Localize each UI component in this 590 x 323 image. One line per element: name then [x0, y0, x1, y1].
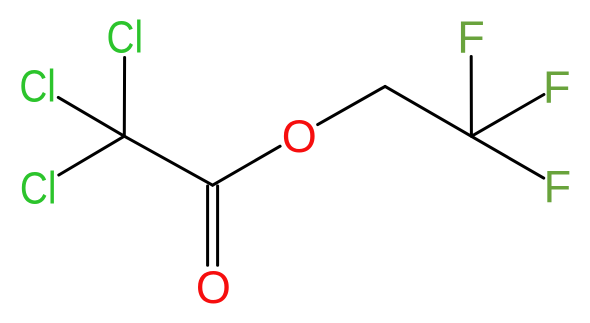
bond CF3-F top (vertical): [470, 57, 473, 137]
svg-text:F: F: [543, 61, 571, 112]
bond C1-Cl upper-left: [58, 97, 124, 136]
bond CF3-F lower-right: [471, 136, 543, 178]
bond CH2-CF3: [385, 86, 471, 136]
bond C1-C2: [124, 136, 212, 185]
svg-text:Cl: Cl: [19, 61, 56, 111]
bond C1-Cl top (vertical): [123, 58, 126, 137]
svg-text:F: F: [457, 11, 485, 62]
bond C2-O ester: [213, 146, 281, 185]
svg-text:O: O: [196, 262, 231, 313]
bond O ester-CH2: [318, 86, 385, 124]
bond CF3-F right: [471, 95, 544, 137]
double bond C2=O line 1: [206, 186, 209, 265]
svg-text:F: F: [544, 161, 572, 212]
bond C1-Cl lower-left: [59, 136, 125, 175]
svg-text:Cl: Cl: [107, 12, 144, 62]
svg-text:O: O: [282, 111, 317, 162]
svg-text:Cl: Cl: [20, 163, 57, 213]
double bond C2=O line 2: [216, 186, 219, 265]
